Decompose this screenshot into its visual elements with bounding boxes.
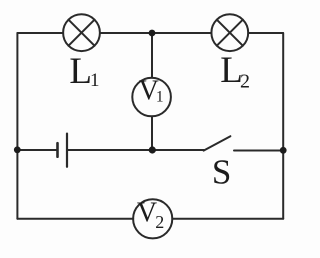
node middle junction — [149, 146, 156, 153]
wire right side — [282, 33, 284, 219]
svg-text:1: 1 — [156, 89, 164, 106]
node right-middle — [280, 147, 287, 154]
switch S lever — [204, 136, 231, 150]
wire left side — [16, 33, 18, 219]
battery cell — [58, 134, 68, 167]
wire top-left segment — [17, 32, 63, 34]
wire bottom-left segment — [17, 218, 133, 220]
wire middle-left to battery — [17, 149, 56, 151]
wire battery to switch — [68, 149, 204, 151]
wire bottom-right segment — [172, 218, 283, 220]
node top-middle — [149, 30, 156, 37]
svg-text:2: 2 — [240, 71, 250, 93]
voltmeter V1 circle — [132, 78, 171, 117]
voltmeter V2 circle — [133, 199, 172, 238]
svg-text:L: L — [69, 51, 92, 92]
node left-middle — [14, 146, 21, 153]
lamp L2 — [211, 14, 248, 51]
wire V1 drop upper — [151, 33, 153, 78]
wire switch to right — [234, 150, 283, 152]
lamp L1 — [63, 14, 100, 51]
svg-text:2: 2 — [155, 212, 164, 232]
wire V1 drop lower — [151, 116, 153, 150]
svg-text:S: S — [212, 153, 231, 192]
wire top-right segment — [248, 32, 283, 34]
svg-text:V: V — [137, 198, 157, 229]
wire top-middle segment — [100, 32, 212, 34]
svg-text:1: 1 — [90, 70, 100, 91]
